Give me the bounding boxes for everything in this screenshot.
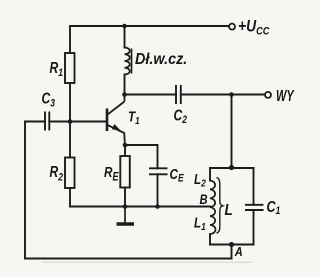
- wire collector line to C2: [125, 94, 177, 96]
- label C1: [267, 198, 281, 217]
- junction dot top rail / choke: [122, 24, 127, 29]
- wire left feedback vertical: [24, 122, 26, 259]
- terminal WY: [265, 92, 271, 98]
- wire coil bottom lead: [209, 234, 211, 245]
- wire top supply rail: [70, 25, 229, 27]
- junction dot ground rail / CE: [155, 204, 160, 209]
- ground: [117, 207, 135, 225]
- junction dot tank top: [229, 165, 234, 170]
- wire CE bottom lead: [157, 174, 159, 206]
- label R2: [50, 163, 64, 184]
- faint scan smudge line: [42, 261, 252, 263]
- wire tank feed vertical: [231, 95, 233, 168]
- wire C3 right lead to base: [49, 121, 106, 123]
- svg-text:A: A: [234, 244, 243, 259]
- label T1: [128, 108, 140, 126]
- capacitor C2: [176, 85, 181, 104]
- wire node A stub down: [231, 245, 233, 259]
- resistor R2: [65, 158, 75, 189]
- wire R1 top lead: [69, 26, 71, 53]
- wire choke bottom lead to collector node: [124, 75, 126, 95]
- label L1: [194, 214, 206, 233]
- wire R1 bottom lead to base node: [69, 83, 71, 122]
- capacitor C1: [245, 205, 264, 210]
- transistor T1: [107, 95, 125, 146]
- label Dl.w.cz.: [135, 50, 187, 68]
- wire coil top lead: [209, 168, 211, 181]
- wire tank bottom rail: [210, 244, 254, 246]
- label R1: [50, 59, 63, 80]
- junction dot base node: [68, 119, 73, 124]
- junction dot emitter node: [123, 143, 128, 148]
- wire C2 to WY terminal: [181, 94, 265, 96]
- svg-text:B: B: [200, 192, 208, 207]
- inductor L (tank coil): [210, 181, 216, 235]
- label node A: [234, 244, 243, 259]
- junction dot WY line / tank feed: [229, 92, 234, 97]
- wire C1 bottom lead: [253, 210, 255, 245]
- junction dot node A: [229, 242, 234, 247]
- svg-text:Dł.w.cz.: Dł.w.cz.: [135, 50, 187, 68]
- wire emitter node to RE: [124, 145, 126, 156]
- wire bottom feedback line: [25, 258, 232, 260]
- junction dot ground rail / RE: [123, 204, 128, 209]
- label +Ucc: [238, 17, 270, 37]
- label CE: [170, 166, 185, 185]
- resistor R1: [65, 53, 75, 83]
- junction dot collector node: [122, 92, 127, 97]
- label RE: [104, 163, 119, 184]
- wire choke top lead: [124, 26, 126, 48]
- wire RE bottom lead: [124, 188, 126, 207]
- wire tank top rail: [210, 167, 254, 169]
- capacitor C3: [45, 112, 49, 131]
- terminal +Ucc: [229, 24, 235, 30]
- label L2: [194, 171, 206, 190]
- label C3: [42, 89, 56, 110]
- label L: [225, 202, 233, 219]
- resistor RE: [120, 156, 130, 188]
- inductor RF choke: [125, 48, 132, 75]
- capacitor CE: [149, 168, 168, 174]
- wire C3 left lead: [25, 121, 45, 123]
- label WY: [276, 87, 295, 104]
- wire emitter node to CE: [125, 145, 158, 168]
- label C2: [174, 106, 188, 127]
- label node B: [200, 192, 208, 207]
- wire ground rail to coil tap B: [70, 206, 210, 208]
- brace for L: [217, 178, 223, 234]
- svg-text:L: L: [225, 202, 233, 219]
- wire C1 top lead: [253, 168, 255, 205]
- wire R2 bottom lead: [69, 188, 71, 207]
- wire R2 top lead: [69, 122, 71, 158]
- svg-text:WY: WY: [276, 87, 295, 104]
